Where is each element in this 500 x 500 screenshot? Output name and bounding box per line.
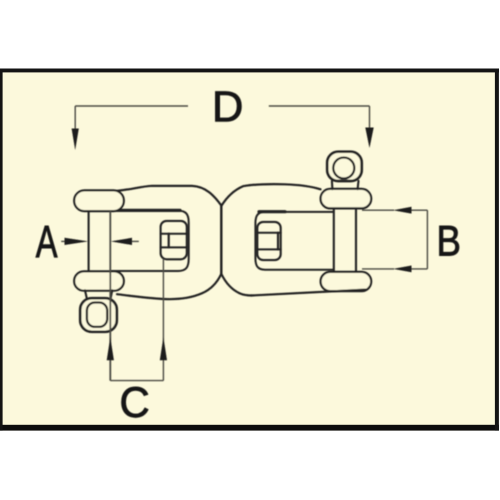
dimension C right line	[162, 259, 164, 381]
left eye slot	[111, 211, 189, 271]
dimension A right arrowhead	[111, 238, 132, 245]
left nut upper band	[161, 233, 187, 235]
left body bottom outline	[117, 274, 221, 299]
left nut cross-section	[161, 221, 187, 259]
dimension C right arrowhead	[160, 337, 167, 360]
right nut face edge	[277, 233, 279, 250]
left pin head ring inner	[87, 303, 107, 327]
right nut cross-section	[257, 222, 280, 260]
right jaw bottom plate	[321, 272, 372, 291]
dimension C left arrowhead	[107, 337, 114, 360]
right jaw top plate	[321, 189, 372, 209]
label D	[216, 92, 242, 122]
right nut upper band	[257, 232, 280, 234]
left body top outline	[117, 186, 221, 206]
right jaw pin right edge	[355, 208, 357, 272]
right body bottom outline	[221, 274, 252, 296]
dimension B top tail	[411, 209, 427, 211]
right eye slot	[255, 212, 333, 270]
dimension A right tail	[132, 240, 139, 242]
left jaw bottom plate	[74, 271, 124, 290]
right pin head neck right	[357, 181, 360, 189]
label A	[36, 226, 58, 257]
dimension B bottom tail	[411, 268, 427, 270]
panel cream background	[0, 69, 499, 431]
dimension D line right segment	[269, 105, 370, 107]
dimension A left tail	[61, 240, 65, 242]
right pin head ring outer	[327, 152, 362, 181]
dimension A left arrowhead	[65, 238, 89, 245]
dimension B top line	[362, 209, 394, 211]
label C	[122, 387, 148, 417]
dimension B bottom line	[362, 268, 394, 270]
dimension D line left segment	[75, 105, 188, 107]
right jaw pin left edge	[333, 208, 335, 272]
panel border top	[0, 69, 499, 73]
label B	[439, 226, 459, 256]
dimension D right arrowhead	[365, 128, 373, 149]
dimension D left drop	[74, 106, 76, 129]
dimension B top arrowhead	[393, 207, 412, 214]
dimension C left line	[109, 211, 111, 381]
right nut lower band	[257, 248, 280, 250]
left nut face edge	[168, 234, 170, 248]
panel border bottom	[0, 425, 499, 431]
left pin head neck right	[111, 290, 113, 298]
left eye slot thick top edge	[112, 209, 180, 212]
dimension D left arrowhead	[72, 129, 79, 151]
left jaw top plate	[74, 190, 124, 211]
right pin head neck left	[331, 181, 334, 189]
left pin head ring outer	[80, 298, 117, 332]
right eye slot thick top edge	[259, 210, 285, 213]
right body bottom sloping edge	[251, 290, 366, 296]
dimension D right drop	[369, 106, 371, 128]
left nut lower band	[161, 246, 187, 248]
dimension B connector	[426, 210, 428, 269]
panel border right	[495, 69, 499, 431]
left jaw pin left edge	[88, 211, 90, 272]
right body top outline	[221, 184, 320, 206]
swivel waist line	[220, 205, 222, 274]
right pin head ring inner	[333, 158, 354, 179]
panel border left	[0, 69, 3, 431]
left pin head neck left	[85, 290, 87, 298]
dimension B bottom arrowhead	[393, 266, 412, 273]
dimension C connector	[110, 380, 163, 382]
